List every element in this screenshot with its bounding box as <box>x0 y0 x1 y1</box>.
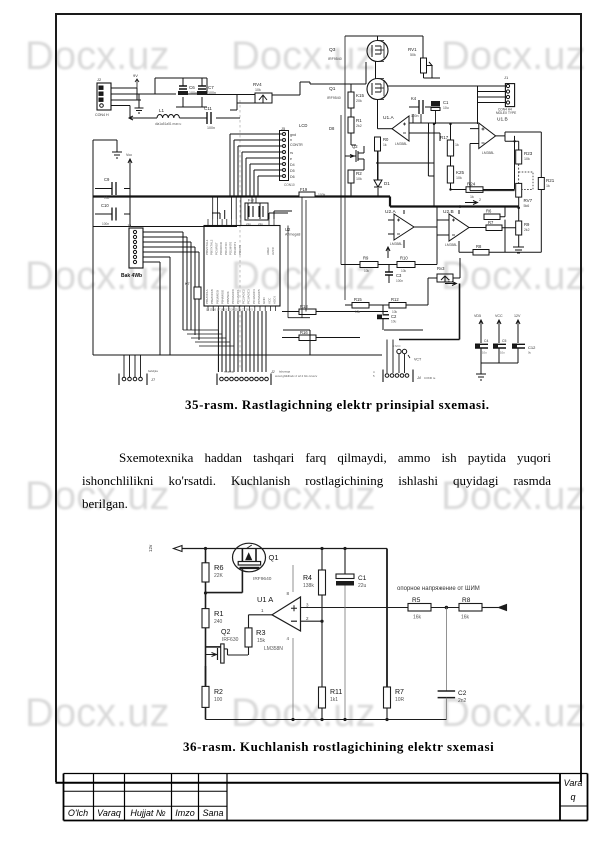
svg-text:q: q <box>570 792 575 802</box>
capacitor C4 <box>475 339 488 363</box>
resistor R9m <box>341 256 378 274</box>
resistor R5 <box>408 597 431 621</box>
MCU pin stubs <box>208 219 274 226</box>
bottom junction dots <box>291 718 294 721</box>
pot Rv3 <box>428 258 460 288</box>
transistor Q3 <box>328 41 388 62</box>
svg-text:Sana: Sana <box>202 808 223 818</box>
dashed net line <box>239 100 241 370</box>
op-amp U1.B <box>470 117 515 191</box>
wire taps bus to MCU <box>213 197 256 220</box>
arrow 2 mid <box>445 282 457 286</box>
resistor R6h <box>484 207 505 221</box>
resistor R21 <box>505 178 555 253</box>
wire R6 bottom to node <box>205 582 207 593</box>
capacitor C2s <box>377 305 397 330</box>
long vertical net <box>433 124 435 207</box>
capacitor C6 <box>178 78 197 107</box>
resistor R2 <box>202 666 223 707</box>
resistor R12 <box>369 288 428 314</box>
resistor R1 <box>348 117 362 145</box>
op-amp U1 <box>257 591 309 652</box>
wire RV4 to gates <box>300 82 366 95</box>
node R4 top <box>320 547 323 550</box>
wire R3 top to op-amp out <box>249 615 273 628</box>
capacitor C5 <box>493 339 506 363</box>
svg-text:O'lch: O'lch <box>68 808 88 818</box>
connector J4 <box>373 340 436 383</box>
resistor R10m <box>378 207 437 274</box>
wire Q3 drain to Q1 <box>375 62 377 79</box>
wire Q1 drain down <box>377 100 379 129</box>
wire staircase bundle <box>183 330 234 346</box>
capacitor C10 <box>95 203 130 226</box>
capacitor C7 <box>197 78 216 107</box>
transistor Q2 <box>345 144 364 166</box>
LCD connector J5 <box>280 123 308 187</box>
resistor R23 <box>516 141 533 164</box>
resistor F19 <box>299 187 326 197</box>
resistor K25 <box>447 156 464 183</box>
watermarks <box>25 34 170 79</box>
wires J1 to node <box>388 86 505 124</box>
resistor R11 <box>319 687 343 720</box>
U1.B output net <box>496 132 542 178</box>
resistor K7 <box>185 282 201 299</box>
node minus <box>320 620 323 623</box>
capacitor C1 polarized <box>431 100 449 111</box>
horizontal bottom rail <box>93 354 382 356</box>
input arrow <box>174 546 183 552</box>
node R6 top <box>204 547 207 550</box>
wire node to R1 <box>205 593 207 609</box>
capacitor C2 <box>438 690 467 720</box>
thick bus left <box>93 195 390 197</box>
Vcc arrow top-left <box>135 79 139 88</box>
svg-text:Varaq: Varaq <box>97 808 121 818</box>
pot RV7 wiper dashed <box>518 164 520 183</box>
vertical bundle under LCD <box>230 134 258 197</box>
wire Q1 drain down-left <box>206 569 243 593</box>
capacitor C3 <box>385 265 403 284</box>
arrow left of L1 <box>129 116 137 120</box>
wire Q3 gate down <box>365 62 367 84</box>
transistor Q1 <box>233 543 279 582</box>
Vcc arrow mid-left <box>126 153 132 170</box>
resistor R16 <box>282 330 360 341</box>
node Q1 drain junction <box>204 591 207 594</box>
arrow symbol near U2.A <box>386 247 390 258</box>
MCU pin labels top row <box>205 239 275 255</box>
thick wire to R7 <box>386 549 388 688</box>
transistor Q2 <box>206 629 249 663</box>
output arrow right <box>482 607 498 609</box>
capacitor C11 <box>180 106 241 130</box>
capacitor C9 <box>95 177 130 200</box>
wire box around C6 C7 <box>155 78 207 107</box>
wires from J3 <box>143 232 199 262</box>
resistor R4 <box>303 549 326 622</box>
MCU pin labels bottom row <box>205 289 277 304</box>
ground <box>135 100 144 113</box>
crystal block C8 <box>245 199 268 227</box>
potentiometer RV7 <box>516 183 533 208</box>
bus line 2 <box>93 226 237 228</box>
arrow 2 right <box>465 201 478 205</box>
connector J1 <box>496 75 516 115</box>
jumper pins VCT <box>392 344 422 362</box>
resistor R1 <box>202 609 224 628</box>
inductor L1 <box>137 108 181 126</box>
capacitor C1 <box>336 547 367 589</box>
gnd under C4 <box>476 363 518 380</box>
VCC arrow <box>495 314 503 343</box>
resistor R3 <box>245 628 266 655</box>
MCU pin numbers row <box>206 308 253 312</box>
wire minus node down to R11 <box>321 621 323 687</box>
caption 36 <box>183 739 494 755</box>
wire bus mid <box>302 36 345 318</box>
op-amp U2.A <box>385 209 437 248</box>
bottom rail <box>206 719 447 721</box>
resistor R7 <box>384 687 405 720</box>
resistor R8h <box>459 220 505 255</box>
thick wire to VCT <box>399 284 460 340</box>
capacitor K4 <box>409 96 432 118</box>
top rail 12V <box>182 548 387 550</box>
MCU U2 <box>204 226 310 318</box>
resistor R18 <box>282 304 388 315</box>
connector J2 <box>95 77 111 117</box>
wires MCU top pins up to bus <box>220 203 274 219</box>
ground right <box>513 235 524 253</box>
+input wire <box>301 607 409 609</box>
wires from J5 pins <box>230 134 283 176</box>
wire down to R6 <box>205 549 207 563</box>
paragraph <box>82 446 551 515</box>
resistor R8 <box>459 597 482 621</box>
wire node down to C2 <box>445 608 447 692</box>
C1 bottom wire <box>344 586 346 720</box>
potentiometer RV4 <box>207 82 300 110</box>
-input wire <box>301 620 323 622</box>
potentiometer RV1 <box>408 47 440 78</box>
wire under C2 <box>384 329 423 331</box>
svg-text:Vara: Vara <box>564 778 583 788</box>
resistor R7h <box>469 220 512 231</box>
wires from J2 <box>111 88 155 106</box>
wire R5 to R8 <box>431 607 459 609</box>
resistor R2 <box>348 166 364 197</box>
transistor Q1 <box>327 79 388 101</box>
resistor R15 <box>345 297 369 314</box>
left rail <box>92 140 94 355</box>
top rail to RV1 <box>345 36 423 58</box>
wire U1.A input 2 <box>409 133 434 176</box>
title block grid <box>56 774 588 821</box>
resistor R24 <box>449 182 514 200</box>
resistor R17 <box>440 123 459 156</box>
wire R1 bottom down <box>205 628 207 686</box>
svg-text:Hujjat №: Hujjat № <box>130 808 166 818</box>
U1.A input wires <box>409 123 455 141</box>
VD5 arrow <box>474 314 483 343</box>
thick bus right <box>390 205 519 207</box>
svg-text:Imzo: Imzo <box>175 808 195 818</box>
connector J7 <box>119 355 158 385</box>
wires MCU bottom pins down <box>218 311 266 372</box>
resistor R0 <box>375 137 390 180</box>
capacitor C12 <box>512 344 536 364</box>
op-amp U1.A <box>378 115 410 146</box>
resistor K15 <box>348 84 365 117</box>
caption 35 <box>185 397 490 413</box>
node C2 top <box>445 606 448 609</box>
op-amp U2.B <box>437 209 484 250</box>
12V arrow <box>514 314 521 343</box>
connector J3 <box>127 223 143 268</box>
resistor R6 <box>202 563 224 582</box>
bottom mid rail <box>283 330 310 355</box>
ground mid-left <box>112 140 122 158</box>
resistor R9v <box>512 208 530 235</box>
connector J6 <box>217 370 271 386</box>
wire U1.A input to node <box>409 122 478 124</box>
wire loop right of U1A <box>378 162 435 164</box>
pin8 wire down <box>292 565 294 720</box>
diode D1 <box>374 150 390 197</box>
